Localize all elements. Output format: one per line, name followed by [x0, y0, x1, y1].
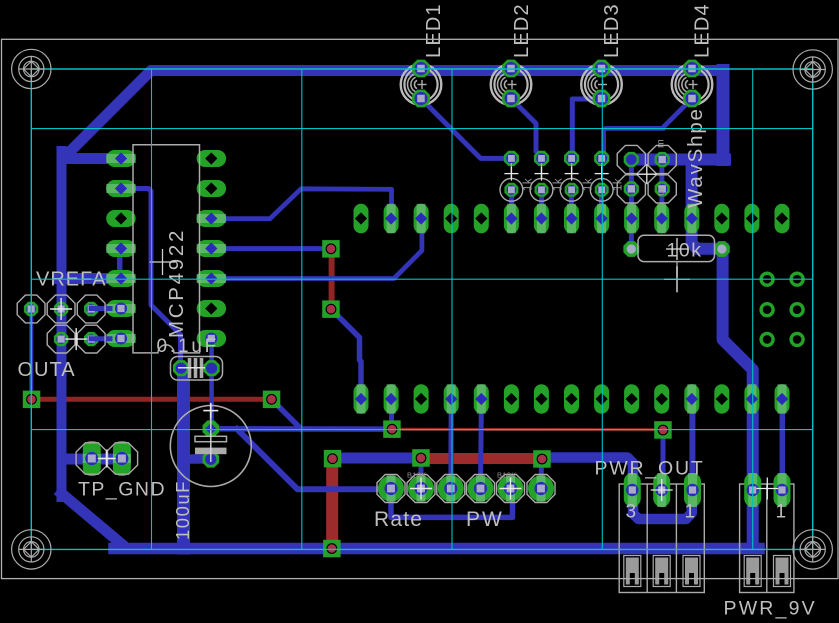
- wire IC pin5-left thick stub VREFA: [59, 273, 122, 284]
- label LED2: [511, 3, 533, 58]
- svg-text:B10K: B10K: [497, 471, 517, 480]
- LED silkscreen circles LED1-LED4: [401, 64, 713, 105]
- testpoint TP_GND pads: [83, 441, 131, 476]
- svg-text:3: 3: [626, 502, 637, 523]
- wire LED3 to R3: [572, 99, 601, 158]
- svg-text:100uF: 100uF: [172, 480, 193, 540]
- label 0.1uF: [157, 336, 220, 357]
- wire R4 bottom to header pad: [599, 192, 604, 219]
- wire red thick vertical net GND via to bottom run: [326, 459, 338, 549]
- wire 100uF bottom pad stub: [188, 454, 211, 464]
- wire GND from 10k pad down: [723, 249, 753, 548]
- label 1 pin number PWR_9V: [776, 502, 787, 523]
- wire WavShpe pin3 to 10k left pad: [629, 163, 634, 249]
- dimension frame through mounting holes: [31, 69, 812, 549]
- svg-text:PWR_9V: PWR_9V: [724, 598, 817, 620]
- resistor R1-R4 silkscreen: [500, 163, 613, 201]
- label WavShpe vertical: [684, 107, 707, 208]
- wire 9V diagonal to Rate pin1: [237, 429, 391, 489]
- header JP2 bottom pad row 15 pins y=399: [354, 384, 790, 414]
- wire red vertical net DACB via to via: [329, 249, 335, 309]
- via pin4 (331,249): [322, 240, 340, 258]
- via Rate wiper (421,458): [412, 449, 430, 467]
- wire VREFA pin to via A: [29, 309, 33, 399]
- svg-text:PWR_OUT: PWR_OUT: [595, 458, 705, 480]
- potentiometer Rate PW octagon outlines: [377, 475, 555, 503]
- wire IC pins 4-5 left link: [117, 249, 123, 279]
- svg-text:LED1: LED1: [423, 3, 445, 58]
- testpoint TP_GND octagon outlines: [76, 443, 138, 474]
- wire PWR net via542 to PWR_OUT pins: [546, 458, 692, 520]
- label LED3: [601, 3, 623, 58]
- via D (663,430): [654, 421, 672, 439]
- capacitor C1 0.1uF silkscreen: [171, 357, 223, 381]
- origin cross WavShpe header: [637, 164, 657, 184]
- wire red net VCC bottom-layer from via A to via B: [32, 397, 272, 402]
- wire IC pin2 to 0.1uF left pad: [122, 189, 181, 369]
- header JP1 top pad row 15 pins y=218: [354, 204, 790, 234]
- label WavShpe pin names tiny: [655, 139, 667, 196]
- wire GND bottom-left diagonal: [62, 494, 122, 544]
- svg-text:B10K: B10K: [407, 471, 427, 480]
- wire Rate pin1 to PW pin2: [391, 489, 513, 518]
- wire red net OUT bottom-layer from via C to via D: [392, 428, 663, 432]
- wire GND via333 to via421: [333, 453, 421, 464]
- svg-text:1k: 1k: [553, 178, 565, 191]
- wire GND bottom run: [114, 543, 759, 555]
- svg-text:LED4: LED4: [692, 3, 714, 58]
- capacitor C2 100uF pads: [203, 420, 220, 467]
- wire IC pin1 stub: [63, 153, 122, 164]
- label LED4: [692, 3, 714, 58]
- IC U1 MCP4922 DIP-14 pads: [106, 150, 226, 347]
- svg-text:un: un: [655, 184, 667, 196]
- labels 1k resistor values: [522, 178, 624, 191]
- wire via A diagonal to 9V rail: [272, 399, 302, 429]
- label MCP4922 vertical: [165, 228, 188, 338]
- origin cross IC U1: [150, 249, 176, 275]
- wire GND thick horizontal to WavShpe header: [631, 154, 725, 166]
- svg-text:1: 1: [776, 502, 787, 523]
- wire header pad to PWR_OUT pin1: [689, 399, 695, 500]
- wire GND top run and top-left diagonal: [66, 71, 723, 156]
- via PW pin3 (542,459): [533, 450, 551, 468]
- label OUTA: [18, 359, 76, 381]
- connector X2 PWR_9V housing silkscreen: [740, 484, 794, 593]
- header SV1 WavShpe 2x2 pads: [624, 152, 670, 197]
- potentiometer pads Rate and PW: [378, 476, 554, 502]
- origin cross PWR_OUT: [651, 479, 673, 501]
- labels pot tiny values: [407, 471, 517, 480]
- origin cross TP_GND: [98, 450, 116, 468]
- wire via to PW pin3 stub: [539, 460, 545, 489]
- capacitor C2 100uF silkscreen: [170, 403, 251, 486]
- resistor R5 10k pads: [623, 241, 729, 257]
- LED pads LED1-LED4: [412, 60, 701, 108]
- label TP_GND: [78, 479, 166, 501]
- label Rate: [374, 508, 423, 531]
- svg-text:OUTA: OUTA: [18, 359, 76, 381]
- wire GND left vertical: [57, 151, 67, 497]
- wire GND right vertical from top run: [717, 71, 730, 160]
- label LED1: [423, 3, 445, 58]
- svg-text:LED3: LED3: [601, 3, 623, 58]
- label 10k: [667, 240, 703, 262]
- label 3 pin number: [626, 502, 637, 523]
- via A (31,399): [23, 391, 41, 409]
- svg-text:Rate: Rate: [374, 508, 423, 531]
- header SV2 VREFA octagon outlines: [17, 295, 105, 353]
- wire header pad to Rate pin3: [448, 399, 453, 489]
- origin cross VREFA pin: [50, 298, 72, 320]
- hole group 2x3 unplated pads right side: [761, 273, 803, 345]
- header SV2 VREFA/OUTA pads: [24, 302, 110, 347]
- grid vertical lines 0.5 inch: [152, 69, 753, 549]
- connector X1 PWR_OUT housing silkscreen: [619, 484, 704, 593]
- via GND (332,459): [324, 450, 342, 468]
- svg-text:1k: 1k: [522, 178, 534, 191]
- svg-text:WavShpe: WavShpe: [684, 107, 707, 208]
- svg-text:1: 1: [685, 502, 696, 523]
- wire header pad to via C stub: [389, 399, 394, 429]
- origin cross Rate: [410, 478, 432, 500]
- svg-text:m: m: [655, 139, 667, 148]
- wire R2 bottom to header pad: [539, 192, 544, 219]
- label PWR_OUT: [595, 458, 705, 480]
- wire IC pin7 to 0.1uF right to 100uF top: [209, 339, 214, 429]
- IC U1 outline: [133, 145, 200, 353]
- wire LED1 to R1: [421, 99, 511, 159]
- label 1 pin number PWR_OUT: [685, 502, 696, 523]
- connector tiny pin labels: [625, 483, 789, 487]
- wire red thick net wiper bottom-layer Rate to PW: [421, 453, 542, 464]
- via C (392,429): [383, 420, 401, 438]
- wire 0.1uF left pad to bottom run thick: [177, 370, 190, 548]
- label PW: [466, 508, 504, 531]
- origin cross 10k resistor: [666, 238, 688, 260]
- wire 9V rail horizontal 100uF to via C: [211, 426, 392, 432]
- svg-text:LED2: LED2: [511, 3, 533, 58]
- wire IC pin5-right to header pad: [211, 219, 422, 279]
- svg-text:MCP4922: MCP4922: [165, 228, 188, 338]
- svg-text:1k: 1k: [583, 178, 595, 191]
- wire LED4 to R4: [604, 99, 692, 157]
- origin cross PWR_9V: [756, 478, 778, 500]
- wire header pad to PWR_9V pin2: [780, 399, 786, 490]
- label VREFA: [36, 269, 107, 291]
- wire WavShpe pin4 to header pad: [659, 163, 664, 219]
- wire via D to PWR_OUT pin2: [661, 430, 666, 490]
- wire IC pin4-right to via: [211, 246, 324, 251]
- grid horizontal lines 0.5 inch: [31, 129, 812, 430]
- wire via2 diagonal to header pad: [331, 309, 361, 399]
- header SV1 WavShpe octagon outlines: [617, 145, 676, 203]
- via B (271,399): [263, 391, 281, 409]
- connector X1 PWR_OUT pads: [624, 473, 701, 507]
- svg-text:TP_GND: TP_GND: [78, 479, 166, 501]
- via 2 (331,309): [322, 300, 340, 318]
- wire R3 bottom to header pad: [569, 195, 574, 219]
- origin cross OUTA pin: [65, 328, 87, 350]
- svg-text:1k: 1k: [613, 178, 625, 191]
- origin cross board reference: [664, 266, 690, 292]
- wire header pad to PW pin1: [478, 399, 484, 489]
- connector X2 PWR_9V pads: [744, 473, 790, 507]
- capacitor C1 0.1uF pads: [173, 360, 220, 376]
- wire TP_GND stub: [63, 454, 122, 465]
- resistor R5 10k silkscreen body: [638, 235, 715, 276]
- svg-text:PW: PW: [466, 508, 504, 531]
- wire GND vertical through header pad to 10k: [692, 160, 722, 249]
- wire IC pin3-right to header pad: [211, 189, 392, 219]
- resistor pads R1-R4 1k: [504, 151, 610, 197]
- wire LED2 to R2: [511, 99, 542, 159]
- label PWR_9V: [724, 598, 817, 620]
- origin cross PW: [500, 478, 522, 500]
- svg-text:0.1uF: 0.1uF: [157, 336, 220, 357]
- wire via to Rate wiper stub: [419, 458, 424, 489]
- via GND bottom (332,548): [323, 540, 341, 558]
- wire R1 bottom to header pad: [509, 192, 514, 219]
- label 100uF vertical: [172, 480, 193, 540]
- svg-text:10k: 10k: [667, 240, 703, 262]
